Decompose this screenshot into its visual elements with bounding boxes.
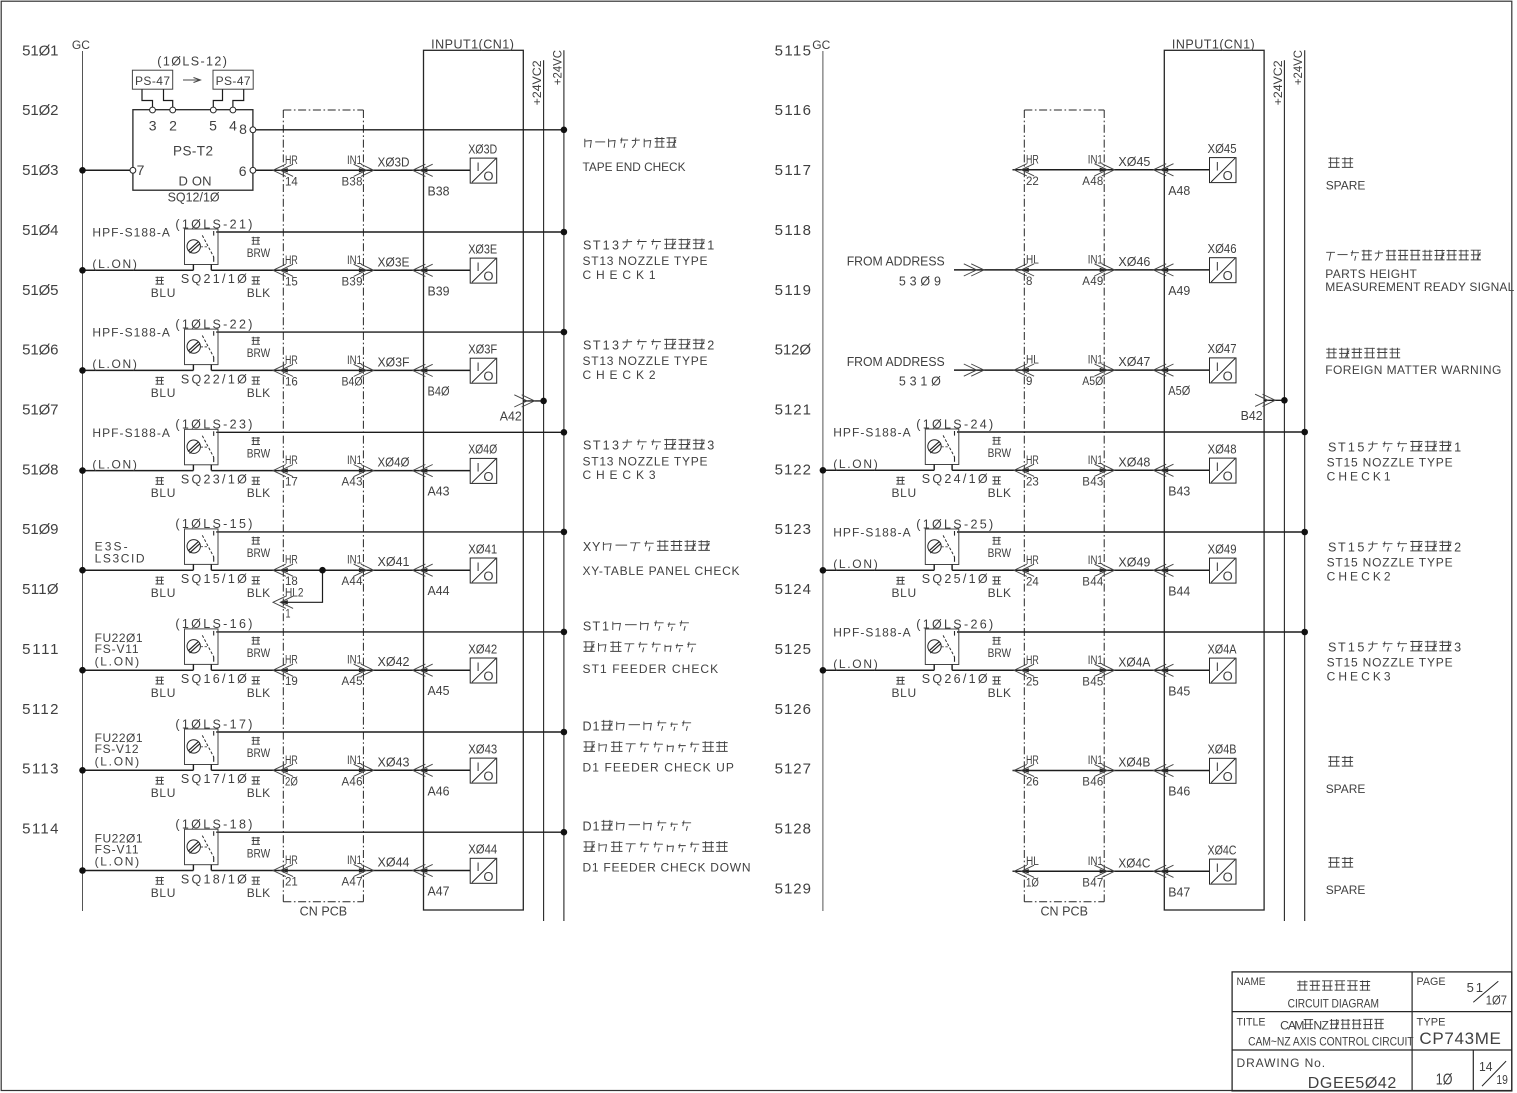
svg-text:B38: B38 [428,184,450,198]
svg-text:BLK: BLK [988,486,1011,500]
svg-text:XØ47: XØ47 [1118,354,1150,369]
svg-text:Y: Y [592,540,601,554]
connector INPUT1(CN1) (right) [1164,38,1264,911]
label sensor SQ16/10 type/designator [95,617,253,686]
connector pin arrow A48 [1153,164,1190,198]
wire SQ23/10 signal (black) to X040 [211,470,470,472]
cable core arrow IN1 pin B44 [1082,555,1114,589]
label sensor SQ17/10 type/designator [95,717,253,786]
svg-text:19: 19 [285,676,298,688]
cable core arrow IN1 pin A46 [342,755,374,789]
connector supply stub A42 to +24VC2 (left) [500,395,547,424]
I/O module X04C [1208,843,1237,884]
svg-text:ST13 NOZZLE TYPE: ST13 NOZZLE TYPE [583,454,708,468]
svg-text:B4Ø: B4Ø [342,376,363,388]
svg-text:B46: B46 [1082,777,1103,789]
svg-text:IN1: IN1 [1088,856,1103,868]
wire SQ17/10 +24V (brown) to +24VC rail [216,731,564,733]
cable core arrow HR pin 14 [273,155,298,189]
svg-text:HL: HL [1026,856,1039,868]
connector pin arrow B45 [1153,664,1190,698]
wire SQ16/10 signal (black) to X042 [211,669,470,671]
svg-text:CN PCB: CN PCB [1040,905,1088,919]
svg-text:XØ42: XØ42 [468,642,497,656]
sensor SQ22/10 proximity switch (10LS-22) [185,329,219,370]
svg-text:4: 4 [229,118,237,134]
svg-text:FROM ADDRESS: FROM ADDRESS [847,255,945,269]
junction dot X041 on +24VC [561,529,568,536]
wire GC to SQ21/10 [83,269,194,271]
svg-text:51Ø2: 51Ø2 [22,102,58,119]
svg-text:HPF-S188-A: HPF-S188-A [833,526,911,540]
svg-text:(L.ON): (L.ON) [95,654,140,668]
description text left column [582,137,750,874]
svg-text:1: 1 [1454,441,1461,455]
svg-text:51Ø9: 51Ø9 [22,521,58,538]
svg-text:BRW: BRW [247,746,271,760]
svg-text:1: 1 [603,338,610,352]
svg-text:O: O [483,369,493,384]
svg-text:D1 FEEDER CHECK UP: D1 FEEDER CHECK UP [583,760,734,774]
svg-text:IN1: IN1 [347,155,362,167]
svg-text:IN1: IN1 [347,855,362,867]
cable core arrow IN1 pin B46 [1082,755,1114,789]
connector INPUT1(CN1) (left) [424,38,524,911]
cable core arrow HR pin 19 [273,655,298,689]
svg-text:HR: HR [285,755,298,767]
svg-text:5124: 5124 [775,581,811,598]
svg-text:B45: B45 [1082,676,1103,688]
title block DRAWING No. cell DGEE5042 [1237,1056,1397,1092]
svg-text:BLU: BLU [151,586,176,600]
svg-text:PAGE: PAGE [1417,976,1446,988]
svg-text:HR: HR [1026,154,1039,166]
svg-text:(1ØLS-15): (1ØLS-15) [175,517,252,531]
wire SQ17/10 signal (black) to X043 [211,769,470,771]
svg-text:1Ø: 1Ø [1026,877,1039,889]
svg-text:A49: A49 [1082,276,1103,288]
title block PAGE cell 51/107 [1417,976,1508,1007]
svg-text:5: 5 [209,118,217,134]
svg-text:HR: HR [285,455,298,467]
svg-text:T: T [593,338,601,352]
svg-text:I: I [1216,362,1219,374]
svg-text:IN1: IN1 [1088,355,1103,367]
branch wire HL2 pin 1 from X041 row [273,570,323,608]
svg-text:GC: GC [812,38,830,52]
svg-text:51Ø3: 51Ø3 [22,162,58,179]
svg-text:S: S [1328,541,1336,555]
svg-text:5126: 5126 [775,701,811,718]
svg-text:(1ØLS-25): (1ØLS-25) [916,517,993,531]
cable core arrow HR pin 20 [273,755,298,789]
svg-text:51Ø7: 51Ø7 [22,402,58,419]
wire GC to SQ24/10 [823,469,934,471]
svg-text:1: 1 [286,608,291,620]
svg-text:+24VC2: +24VC2 [530,60,544,105]
title block frame [1232,972,1512,1091]
svg-text:+24VC2: +24VC2 [1271,60,1285,105]
svg-text:5118: 5118 [775,222,811,239]
svg-text:S: S [583,620,591,634]
svg-text:XØ4B: XØ4B [1208,743,1237,757]
svg-text:T: T [1338,641,1346,655]
svg-text:2Ø: 2Ø [285,776,298,788]
label wire colors SQ23/10 (BRW/BLK/BLU) [151,437,271,500]
svg-text:BRW: BRW [247,546,271,560]
sensor SQ24/10 proximity switch (10LS-24) [925,429,959,470]
connector pin arrow B47 [1153,865,1190,899]
svg-text:1: 1 [603,439,610,453]
svg-text:BLK: BLK [988,686,1011,700]
svg-text:T: T [592,620,600,634]
svg-text:GC: GC [72,38,90,52]
svg-text:5125: 5125 [775,641,811,658]
label HL2 pin 1 [285,587,304,620]
svg-text:MEASUREMENT READY SIGNAL: MEASUREMENT READY SIGNAL [1325,280,1514,294]
svg-text:B47: B47 [1082,877,1103,889]
svg-text:XØ41: XØ41 [468,542,497,556]
svg-text:D ON: D ON [179,173,212,188]
svg-text:B42: B42 [1241,409,1263,423]
cable core arrow HL pin 10 [1014,856,1039,890]
svg-text:I: I [476,262,479,274]
junction dot pin8 wire on +24VC [561,127,568,134]
wires PS-47 to PS-T2 pins 3 2 5 4 [142,89,244,107]
svg-text:IN1: IN1 [347,755,362,767]
svg-text:B44: B44 [1168,584,1190,598]
svg-text:Z: Z [1321,1018,1329,1032]
wire GC to SQ16/10 [83,669,194,671]
svg-text:HR: HR [285,155,298,167]
wire from address 5310 to X047 [954,364,1210,376]
svg-text:A44: A44 [428,584,450,598]
label sensor SQ26/10 type/designator [833,617,993,686]
svg-text:18: 18 [285,576,298,588]
svg-text:511Ø: 511Ø [22,581,59,598]
svg-text:XØ3D: XØ3D [378,154,410,169]
connector pin arrow A45 [413,664,450,698]
svg-text:BLK: BLK [247,386,270,400]
svg-text:XØ4A: XØ4A [1118,654,1150,669]
svg-text:IN1: IN1 [1088,254,1103,266]
svg-text:B47: B47 [1168,885,1190,899]
title block TITLE cell [1237,1016,1415,1048]
svg-text:HR: HR [1026,755,1039,767]
wire from address 5309 to X046 [954,264,1210,276]
svg-text:IN1: IN1 [1088,655,1103,667]
svg-text:IN1: IN1 [1088,755,1103,767]
svg-text:TAPE END CHECK: TAPE END CHECK [583,160,686,174]
svg-text:I: I [1216,562,1219,574]
svg-text:XØ45: XØ45 [1208,142,1237,156]
svg-text:PS-47: PS-47 [216,74,251,88]
interrupter sensors PS-47 pair with arrow (10LS-12) [132,54,253,89]
svg-text:9: 9 [1026,376,1032,388]
connector pin arrow B38 [413,164,450,198]
cable core arrow HR pin 25 [1014,655,1039,689]
svg-text:HR: HR [1026,655,1039,667]
svg-text:XØ3F: XØ3F [378,354,410,369]
junction dot GC SQ23/10 [79,467,86,474]
svg-text:A49: A49 [1168,284,1190,298]
I/O module X046 [1208,242,1237,283]
svg-text:3: 3 [1454,641,1461,655]
svg-text:HPF-S188-A: HPF-S188-A [92,426,169,440]
wire SQ15/10 +24V (brown) to +24VC rail [216,531,564,533]
label wire colors SQ26/10 (BRW/BLK/BLU) [892,637,1012,700]
junction dot GC SQ18/10 [79,867,86,874]
svg-text:CHECK2: CHECK2 [1327,569,1391,583]
svg-text:INPUT1(CN1): INPUT1(CN1) [1172,38,1255,52]
svg-text:CIRCUIT DIAGRAM: CIRCUIT DIAGRAM [1288,997,1379,1011]
svg-text:O: O [1223,368,1233,383]
svg-text:XØ3E: XØ3E [468,242,497,256]
svg-text:HPF-S188-A: HPF-S188-A [92,326,169,340]
svg-text:5128: 5128 [775,821,811,838]
cable core arrow IN1 pin B39 [342,255,374,289]
svg-text:(L.ON): (L.ON) [92,257,136,271]
svg-text:2: 2 [169,118,177,134]
wire GC to pin 7 [83,169,131,171]
cable core arrow HR pin 16 [273,355,298,389]
svg-text:ST1 FEEDER CHECK: ST1 FEEDER CHECK [583,662,719,676]
connector pin arrow B39 [413,264,450,298]
svg-text:CAM~NZ AXIS CONTROL CIRCUIT: CAM~NZ AXIS CONTROL CIRCUIT [1248,1035,1414,1049]
svg-text:1: 1 [603,238,610,252]
I/O module X047 [1208,342,1237,383]
svg-text:51Ø1: 51Ø1 [22,42,58,59]
title block NAME cell [1237,976,1380,1011]
svg-text:5113: 5113 [22,761,58,778]
svg-text:ST13 NOZZLE TYPE: ST13 NOZZLE TYPE [583,254,708,268]
svg-text:CHECK3: CHECK3 [1327,669,1391,683]
svg-text:5115: 5115 [775,42,811,59]
svg-text:(1ØLS-16): (1ØLS-16) [175,617,252,631]
label sensor SQ23/10 type/designator [92,418,252,487]
tape-end sensor unit PS-T2 (SQ12/10) [133,107,253,204]
I/O module X048 [1208,442,1237,483]
svg-text:IN1: IN1 [347,555,362,567]
wire GC to SQ25/10 [823,569,934,571]
svg-text:A43: A43 [342,477,363,489]
label wire colors SQ22/10 (BRW/BLK/BLU) [151,337,271,400]
svg-text:BLU: BLU [892,486,917,500]
cable core arrow HR pin 18 [273,555,298,589]
cable shield CN-PCB dash-dot boundary (right) [1024,110,1104,919]
svg-text:I: I [1216,262,1219,274]
svg-text:O: O [483,269,493,284]
svg-text:(L.ON): (L.ON) [833,557,878,571]
sensor SQ15/10 proximity switch (10LS-15) [185,529,219,570]
svg-text:TITLE: TITLE [1237,1016,1266,1028]
connector pin arrow A47 [413,864,450,898]
row number ruler (left) [22,42,59,837]
svg-text:S: S [1328,641,1336,655]
svg-text:IN1: IN1 [347,655,362,667]
wire pin 6 to X03D [256,169,470,171]
I/O module X03E [468,242,497,283]
label FROM ADDRESS 5309 [847,255,945,289]
svg-text:I: I [1216,863,1219,875]
cable core arrow IN1 pin A47 [342,855,374,889]
svg-text:5129: 5129 [775,880,811,897]
svg-text:HR: HR [285,255,298,267]
svg-text:23: 23 [1026,476,1039,488]
svg-text:A5Ø: A5Ø [1168,384,1190,398]
junction dot HL2 branch [319,567,326,574]
svg-text:BLU: BLU [151,486,176,500]
svg-text:O: O [483,669,493,684]
label FROM ADDRESS 5310 [847,355,945,389]
cable core arrow HR pin 24 [1014,555,1039,589]
svg-text:5127: 5127 [775,761,811,778]
svg-text:1: 1 [707,238,714,252]
svg-text:XØ41: XØ41 [378,554,410,569]
svg-text:XØ4A: XØ4A [1208,642,1238,656]
svg-text:T: T [1338,441,1346,455]
svg-text:5117: 5117 [775,162,811,179]
svg-text:(L.ON): (L.ON) [833,657,878,671]
svg-text:XØ44: XØ44 [378,855,410,870]
junction dot GC SQ21/10 [79,267,86,274]
wire SQ25/10 signal (black) to X049 [952,569,1209,571]
junction dot X042 on +24VC [561,629,568,636]
cable core arrow IN1 pin A50 [1082,355,1114,389]
wire SQ18/10 +24V (brown) to +24VC rail [216,831,564,833]
svg-text:XØ46: XØ46 [1208,242,1237,256]
wire SQ23/10 +24V (brown) to +24VC rail [216,431,564,433]
svg-text:FROM ADDRESS: FROM ADDRESS [847,355,945,369]
cable core arrow HR pin 22 [1014,154,1039,188]
svg-text:BRW: BRW [247,246,271,260]
svg-text:A45: A45 [342,676,363,688]
svg-text:O: O [1223,168,1233,183]
svg-text:19: 19 [1496,1072,1508,1087]
junction dot GC SQ17/10 [79,767,86,774]
wire SQ21/10 signal (black) to X03E [211,269,470,271]
svg-text:B43: B43 [1168,484,1190,498]
svg-text:S: S [583,238,591,252]
wire SQ18/10 signal (black) to X044 [211,870,470,872]
svg-text:IN1: IN1 [1088,455,1103,467]
svg-text:SQ18/1Ø: SQ18/1Ø [181,872,247,886]
svg-text:BLK: BLK [247,586,270,600]
junction dot GC SQ26/10 [820,667,827,674]
svg-text:1Ø: 1Ø [1436,1071,1453,1088]
svg-text:15: 15 [285,276,298,288]
svg-text:O: O [483,769,493,784]
svg-text:S: S [583,439,591,453]
svg-text:+24VC: +24VC [1291,50,1305,85]
svg-text:51Ø6: 51Ø6 [22,342,58,359]
svg-text:BLK: BLK [247,486,270,500]
svg-text:I: I [476,162,479,174]
svg-text:BLU: BLU [151,286,176,300]
svg-text:(1ØLS-18): (1ØLS-18) [175,818,252,832]
wire SQ21/10 +24V (brown) to +24VC rail [216,231,564,233]
junction dot GC PS-T2 [79,167,86,174]
svg-text:HR: HR [1026,455,1039,467]
svg-text:2: 2 [1454,541,1461,555]
svg-text:I: I [1216,762,1219,774]
svg-text:CHECK3: CHECK3 [583,468,656,482]
svg-text:A46: A46 [342,776,363,788]
svg-text:16: 16 [285,376,298,388]
svg-text:A48: A48 [1082,176,1103,188]
svg-text:5112: 5112 [22,701,58,718]
svg-text:O: O [483,469,493,484]
svg-text:O: O [483,169,493,184]
cable core arrow HL pin 9 [1014,355,1039,389]
I/O module X044 [468,843,497,884]
connector pin arrow B43 [1153,464,1190,498]
svg-text:IN1: IN1 [347,255,362,267]
svg-text:O: O [1223,569,1233,584]
svg-text:BRW: BRW [247,346,271,360]
svg-text:XY-TABLE PANEL CHECK: XY-TABLE PANEL CHECK [583,564,740,578]
label wire colors SQ15/10 (BRW/BLK/BLU) [151,537,271,600]
label wire colors SQ18/10 (BRW/BLK/BLU) [151,837,271,900]
svg-text:SQ23/1Ø: SQ23/1Ø [181,473,247,487]
junction dot X04A on +24VC [1301,629,1308,636]
svg-text:T: T [593,238,601,252]
junction dot X03F on +24VC [561,329,568,336]
cable core arrow IN1 pin B38 [342,155,374,189]
connector pin arrow B44 [1153,564,1190,598]
svg-text:CHECK2: CHECK2 [583,368,656,382]
svg-text:XØ43: XØ43 [468,742,497,756]
connector pin arrow A44 [413,564,450,598]
svg-text:BLK: BLK [247,886,270,900]
connector supply stub B42 to +24VC2 (right) [1241,394,1288,423]
svg-text:A46: A46 [428,784,450,798]
svg-text:BLU: BLU [151,886,176,900]
svg-text:XØ4Ø: XØ4Ø [378,455,410,470]
svg-text:5119: 5119 [775,282,811,299]
svg-text:1: 1 [1348,441,1355,455]
svg-text:A47: A47 [428,885,450,899]
svg-text:SQ24/1Ø: SQ24/1Ø [922,472,988,486]
cable core arrow HL pin 8 [1014,254,1039,288]
junction dot GC SQ22/10 [79,367,86,374]
I/O module X045 [1208,142,1237,183]
svg-text:B46: B46 [1168,785,1190,799]
svg-text:X: X [583,540,592,554]
svg-text:A45: A45 [428,684,450,698]
net GC bus (left) [72,38,90,911]
row number ruler (right) [775,42,812,897]
svg-text:8: 8 [1026,276,1032,288]
svg-text:O: O [1223,669,1233,684]
svg-text:SPARE: SPARE [1326,782,1366,796]
svg-text:IN1: IN1 [1088,555,1103,567]
svg-text:(1ØLS-12): (1ØLS-12) [157,54,227,68]
I/O module X040 [468,443,497,484]
cable shield CN-PCB dash-dot boundary (left) [283,110,363,919]
cable core arrow HR pin 17 [273,455,298,489]
junction dot X049 on +24VC [1301,529,1308,536]
svg-text:5114: 5114 [22,821,58,838]
svg-text:XØ4B: XØ4B [1118,755,1150,770]
svg-text:SQ15/1Ø: SQ15/1Ø [181,572,247,586]
svg-text:A44: A44 [342,576,364,588]
label sensor SQ21/10 type/designator [92,217,252,286]
wire GC to SQ22/10 [83,369,194,371]
svg-text:14: 14 [285,176,298,188]
svg-text:3: 3 [149,118,157,134]
connector pin arrow A46 [413,764,450,798]
